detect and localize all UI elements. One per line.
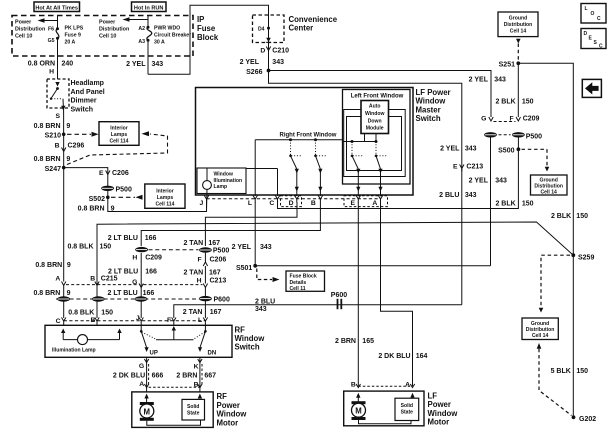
svg-text:H: H [132, 255, 137, 262]
svg-text:2 LT BLU: 2 LT BLU [108, 235, 138, 242]
bus S501 to G wire [255, 265, 490, 267]
power distribution text right [99, 20, 129, 40]
svg-text:And Panel: And Panel [71, 89, 105, 96]
svg-text:2 YEL: 2 YEL [440, 146, 460, 153]
RF switch UP contact [140, 325, 158, 356]
diode D4 [258, 26, 271, 42]
svg-text:Distribution: Distribution [504, 22, 533, 28]
svg-text:S251: S251 [499, 62, 515, 69]
dashed connector rects on pin row [281, 196, 302, 207]
svg-text:Cell 10: Cell 10 [99, 34, 116, 40]
svg-text:F: F [167, 317, 171, 324]
svg-text:PK LPS: PK LPS [65, 25, 84, 31]
svg-text:2 DK BLU: 2 DK BLU [378, 353, 410, 360]
svg-text:S: S [56, 113, 61, 120]
svg-text:D4: D4 [258, 26, 265, 32]
svg-text:Power: Power [15, 20, 32, 26]
svg-text:0.8 BRN: 0.8 BRN [33, 290, 60, 297]
svg-text:Switch: Switch [71, 106, 94, 113]
svg-text:166: 166 [143, 290, 155, 297]
svg-text:C210: C210 [272, 47, 289, 54]
svg-text:Cell 10: Cell 10 [15, 34, 32, 40]
svg-text:Window: Window [217, 410, 248, 419]
svg-text:167: 167 [210, 309, 222, 316]
svg-text:S501: S501 [236, 265, 252, 272]
wire S266 branch to C213 column [269, 71, 462, 305]
ground distribution cell 14 box top [498, 12, 538, 37]
connector C213 pin H [197, 277, 227, 287]
svg-text:150: 150 [522, 98, 534, 105]
Hot In RUN label [132, 2, 167, 12]
svg-text:C213: C213 [210, 277, 227, 284]
svg-text:167: 167 [209, 269, 221, 276]
svg-text:C296: C296 [68, 143, 85, 150]
node S266 [246, 69, 270, 76]
svg-text:D: D [584, 31, 588, 37]
svg-text:150: 150 [576, 368, 588, 375]
pin chevrons J L C D B E A [204, 196, 382, 203]
svg-text:L: L [585, 6, 588, 12]
svg-text:F: F [509, 116, 513, 123]
dashed ref S500 to ground dist box [522, 149, 550, 171]
svg-text:Center: Center [289, 24, 314, 33]
svg-text:9: 9 [66, 123, 70, 130]
svg-text:IP: IP [197, 15, 204, 24]
fuse F6/G5 PK LPS Fuse 9 [56, 27, 59, 39]
interior lamps cell 114 box 2 [145, 184, 185, 208]
column 0.8 BLK 150 (bus to RF pin B) [97, 222, 573, 255]
svg-text:B: B [90, 317, 95, 324]
svg-text:UP: UP [150, 350, 158, 356]
svg-text:Switch: Switch [235, 343, 260, 352]
svg-text:G: G [132, 279, 137, 286]
master pin row dashed [207, 198, 381, 200]
svg-text:C213: C213 [466, 164, 483, 171]
svg-text:343: 343 [465, 192, 477, 199]
svg-text:DN: DN [208, 350, 217, 356]
legend box DESC [581, 29, 606, 50]
headlamp dimmer switch dashed box [47, 79, 69, 108]
RF pin chevrons C B J F L [62, 318, 208, 326]
svg-text:0.8 BRN: 0.8 BRN [34, 123, 61, 130]
svg-text:Switch: Switch [416, 114, 441, 123]
svg-text:M: M [355, 407, 362, 416]
svg-text:Window: Window [416, 97, 447, 106]
dashed ref S501 to fuse block details [257, 269, 280, 283]
svg-text:S502: S502 [89, 196, 105, 203]
LF solid state box [395, 393, 419, 421]
svg-text:9: 9 [66, 156, 70, 163]
RFW switch contact 1 [289, 140, 302, 174]
svg-text:2 BRN: 2 BRN [176, 373, 197, 380]
svg-text:Ground: Ground [509, 16, 527, 22]
svg-text:Fuse Block: Fuse Block [290, 274, 317, 280]
svg-text:0.8 BLK: 0.8 BLK [68, 310, 94, 317]
svg-text:150: 150 [100, 244, 112, 251]
svg-text:C209: C209 [145, 255, 162, 262]
svg-text:Window: Window [365, 111, 385, 117]
connector C206 pin F [198, 256, 227, 266]
svg-text:2 BLU: 2 BLU [255, 298, 275, 305]
svg-text:A2: A2 [138, 26, 145, 32]
svg-text:B: B [351, 382, 356, 389]
left front window inner box [343, 90, 411, 185]
svg-text:G5: G5 [48, 38, 55, 44]
svg-text:P500: P500 [213, 248, 229, 255]
svg-text:Window: Window [235, 334, 266, 343]
svg-text:343: 343 [494, 77, 506, 84]
fuse block details cell 11 box [286, 271, 325, 292]
svg-text:C215: C215 [101, 275, 118, 282]
svg-text:C206: C206 [112, 170, 129, 177]
svg-text:Power: Power [217, 401, 240, 410]
svg-text:J: J [200, 200, 204, 207]
convenience center dashed box [253, 15, 285, 43]
RF power window motor box [132, 392, 213, 428]
svg-text:P600: P600 [331, 292, 347, 299]
svg-text:F6: F6 [48, 27, 54, 33]
svg-text:0.8 ORN: 0.8 ORN [28, 61, 55, 68]
column 2 LT BLU 166 [141, 202, 320, 246]
wire 0.8 ORN 240 [57, 38, 59, 79]
svg-text:Motor: Motor [428, 418, 450, 427]
svg-text:20 A: 20 A [65, 39, 76, 45]
svg-text:O: O [591, 11, 595, 17]
svg-text:2 BLK: 2 BLK [495, 98, 515, 105]
wire pin L up to rail [254, 140, 256, 196]
wire LFW to pin A [380, 169, 382, 196]
circuit breaker A2/A3 PWR WDO [123, 16, 152, 42]
svg-text:RF: RF [217, 392, 228, 401]
wire pin A down to LF motor A [381, 202, 413, 386]
svg-text:Interior: Interior [156, 188, 174, 194]
svg-text:S500: S500 [498, 148, 514, 155]
svg-text:2 TAN: 2 TAN [183, 269, 203, 276]
wire RF pin K down [199, 357, 201, 392]
svg-text:C206: C206 [210, 256, 227, 263]
svg-text:Dimmer: Dimmer [71, 98, 97, 105]
svg-text:Solid: Solid [401, 403, 413, 409]
svg-text:Cell 14: Cell 14 [532, 333, 549, 339]
svg-text:G: G [481, 116, 486, 123]
exit arrowheads at master box bottom [295, 187, 299, 192]
svg-text:A: A [405, 382, 410, 389]
svg-text:Master: Master [416, 105, 441, 114]
svg-text:Details: Details [290, 280, 307, 286]
wire pin C vertical [277, 169, 279, 197]
wire S502 to master pin J [108, 197, 207, 211]
svg-text:150: 150 [101, 310, 113, 317]
wire S251 right branch to S259 [518, 63, 573, 255]
dashed ref S502 to interior lamps box2 [111, 195, 143, 200]
svg-text:Cell 114: Cell 114 [156, 201, 175, 207]
wire C215-A down to RF pin C [63, 286, 65, 319]
svg-text:B: B [311, 200, 316, 207]
node G202 [572, 415, 597, 423]
node S210 [45, 132, 66, 139]
connector C296 pin B [55, 143, 85, 152]
svg-text:2 YEL: 2 YEL [469, 77, 489, 84]
svg-text:2 LT BLU: 2 LT BLU [107, 290, 137, 297]
svg-text:30 A: 30 A [154, 39, 165, 45]
svg-text:343: 343 [255, 306, 267, 313]
svg-text:2 YEL: 2 YEL [469, 177, 489, 184]
svg-text:343: 343 [152, 61, 164, 68]
svg-text:A: A [55, 275, 60, 282]
svg-text:166: 166 [145, 268, 157, 275]
svg-text:D: D [260, 47, 265, 54]
RF window switch box [45, 325, 232, 357]
svg-text:Power: Power [99, 20, 116, 26]
svg-text:L: L [248, 200, 252, 207]
svg-text:F: F [198, 256, 202, 263]
Hot At All Times label [34, 2, 80, 12]
svg-text:H: H [49, 69, 54, 76]
interior lamps cell 114 box 1 [99, 122, 139, 146]
svg-text:P600: P600 [214, 297, 230, 304]
svg-text:L: L [198, 317, 202, 324]
LFW switch contact 1 [351, 142, 364, 174]
wire lamp to pin J [206, 189, 209, 211]
svg-text:RF: RF [235, 325, 246, 334]
svg-text:Cell 14: Cell 14 [540, 189, 557, 195]
svg-text:Fuse 9: Fuse 9 [65, 32, 82, 38]
svg-text:Headlamp: Headlamp [71, 80, 104, 87]
ground distribution cell 14 box bottom [522, 318, 558, 340]
svg-text:Distribution: Distribution [99, 27, 129, 33]
svg-text:P500: P500 [116, 186, 132, 193]
svg-text:Illumination: Illumination [214, 178, 243, 184]
svg-text:2 BLK: 2 BLK [551, 213, 571, 220]
svg-text:PWR WDO: PWR WDO [154, 25, 180, 31]
svg-text:165: 165 [362, 338, 374, 345]
LF motor M symbol [352, 393, 366, 420]
wire pin E down to LF motor B [357, 202, 359, 386]
svg-text:Interior: Interior [110, 126, 128, 132]
RF pin row dashed [64, 320, 206, 322]
wire S259 to G202 [572, 255, 574, 417]
RF motor M symbol [140, 394, 154, 421]
svg-text:M: M [144, 407, 151, 416]
svg-text:Hot In RUN: Hot In RUN [134, 5, 164, 11]
svg-text:E: E [453, 164, 458, 171]
svg-text:Left Front Window: Left Front Window [351, 94, 404, 100]
wire breaker output to S266 loop [147, 40, 149, 74]
wire S251 down to C209 F [517, 63, 519, 117]
svg-text:167: 167 [208, 240, 220, 247]
svg-text:Power: Power [428, 400, 451, 409]
connector C210 pin D [260, 47, 289, 55]
wire G below P500 down to S501 bus [490, 138, 492, 266]
svg-text:C: C [56, 318, 61, 325]
RFW switch contact 2 [314, 140, 327, 174]
svg-text:H: H [197, 277, 202, 284]
RFW rail [255, 139, 342, 141]
wire dimmer to S210 [63, 108, 65, 168]
RF solid state box [182, 394, 205, 421]
bus pin C to S500 ground [278, 149, 519, 208]
svg-text:E: E [99, 170, 104, 177]
svg-text:666: 666 [152, 373, 164, 380]
wire RFW to pin B [319, 169, 321, 196]
connector P600 dashed row with ovals [56, 296, 230, 304]
LF power window master switch box [196, 88, 414, 196]
svg-text:Lamp: Lamp [214, 184, 228, 190]
connector P500 oval (F/C206 column) [199, 247, 229, 254]
RF illumination lamp [52, 329, 122, 354]
legend arrow box [582, 79, 601, 97]
svg-text:Convenience: Convenience [289, 15, 338, 24]
svg-text:Down: Down [368, 118, 382, 124]
svg-text:Window: Window [428, 409, 459, 418]
svg-text:Distribution: Distribution [15, 27, 45, 33]
ground distribution cell 14 box mid [531, 175, 568, 195]
node S500 [498, 147, 520, 154]
wire P500 to S502 [107, 191, 109, 198]
svg-text:B: B [55, 143, 60, 150]
AWDM leads [364, 134, 366, 142]
svg-text:2 YEL: 2 YEL [232, 244, 252, 251]
svg-text:Circuit Breaker: Circuit Breaker [154, 32, 191, 38]
LF motor internal wire [359, 420, 412, 424]
dashed ref S210 to interior lamps [67, 132, 99, 137]
svg-text:Fuse: Fuse [197, 24, 216, 33]
svg-text:9: 9 [67, 290, 71, 297]
svg-text:E: E [351, 200, 356, 207]
svg-text:State: State [187, 411, 200, 417]
svg-text:G: G [139, 363, 144, 370]
connector C206 pin E [99, 170, 129, 177]
svg-text:C: C [597, 16, 601, 22]
svg-text:S266: S266 [246, 69, 262, 76]
wire LFW to pin E [357, 169, 359, 196]
nested loop wires [347, 117, 402, 171]
wire S266 to G C209 [269, 71, 492, 118]
svg-text:S259: S259 [578, 254, 594, 261]
svg-text:343: 343 [260, 244, 272, 251]
svg-text:D: D [289, 200, 294, 207]
column 2 TAN 167 (C206/C213 chain) [205, 202, 297, 246]
connector C213 pin E [453, 164, 483, 172]
svg-text:Hot At All Times: Hot At All Times [35, 5, 78, 11]
LF power window motor box [344, 391, 424, 426]
svg-text:2 YEL: 2 YEL [240, 59, 260, 66]
dashed C209 row to P500 oval [149, 249, 199, 251]
wire fuse feed with arrow [38, 16, 58, 29]
svg-text:Window: Window [214, 172, 234, 178]
LFW rail [343, 141, 377, 143]
connector C213 pin G [132, 279, 202, 288]
svg-text:A: A [139, 381, 144, 388]
IP Fuse Block text [197, 15, 219, 42]
svg-text:343: 343 [272, 59, 284, 66]
svg-text:150: 150 [576, 213, 588, 220]
svg-text:2 LT BLU: 2 LT BLU [108, 268, 138, 275]
svg-text:Right Front Window: Right Front Window [280, 133, 337, 139]
wire RFW to pin D [296, 169, 298, 196]
power distribution text left [15, 20, 45, 40]
svg-text:Auto: Auto [369, 104, 381, 110]
wire S247 down left column [63, 168, 65, 282]
svg-text:P500: P500 [526, 133, 542, 140]
RF motor connector pins G/K A/B [139, 359, 202, 388]
svg-text:150: 150 [522, 201, 534, 208]
svg-text:Illumination Lamp: Illumination Lamp [52, 348, 96, 354]
svg-text:S247: S247 [45, 166, 61, 173]
wire pin L down to S501 [254, 202, 256, 266]
wire RF pin G down [146, 357, 148, 392]
svg-text:B: B [194, 381, 199, 388]
connector P600 double bar on bus [338, 299, 342, 309]
RF switch feed rail pin F [156, 326, 194, 340]
svg-text:0.8 BLK: 0.8 BLK [67, 244, 93, 251]
dashed ref to S251 [516, 39, 521, 61]
svg-text:2 BLU: 2 BLU [439, 192, 459, 199]
dashed ref box bottom to G202 [537, 343, 572, 416]
svg-text:343: 343 [465, 146, 477, 153]
RF switch DN contact [194, 325, 216, 356]
svg-text:K: K [194, 364, 199, 371]
connector P500 oval on C206 wire [101, 186, 132, 194]
svg-text:Motor: Motor [217, 418, 239, 427]
wire S247 branch to C206 [64, 168, 108, 186]
svg-text:667: 667 [204, 373, 216, 380]
svg-text:Block: Block [197, 33, 219, 42]
auto window down module box [361, 101, 389, 134]
legend box LOC [581, 4, 606, 24]
connector C215 pins A/B [55, 275, 138, 285]
svg-text:0.8 BRN: 0.8 BRN [35, 262, 62, 269]
node S251 [499, 61, 521, 68]
RF motor internal wire [147, 420, 201, 425]
svg-text:C209: C209 [523, 116, 540, 123]
dashed ref S247 to interior lamps box1 [67, 134, 168, 165]
svg-text:166: 166 [145, 235, 157, 242]
node S501 [236, 264, 257, 272]
svg-text:Cell 114: Cell 114 [110, 139, 129, 145]
IP fuse block dashed box [12, 16, 193, 57]
node S247 [45, 166, 66, 173]
svg-text:5 BLK: 5 BLK [551, 368, 571, 375]
connector C209 oval H [132, 247, 162, 262]
svg-text:2 TAN: 2 TAN [183, 309, 203, 316]
connector C209 pins G/F [481, 116, 539, 123]
LFW switch contact 2 [375, 142, 388, 174]
svg-text:A3: A3 [138, 39, 145, 45]
pin letters [200, 200, 378, 207]
wire F below P500 to S500 and bus208 [517, 138, 519, 150]
svg-text:Cell 14: Cell 14 [510, 29, 527, 35]
svg-text:A: A [372, 200, 377, 207]
svg-text:Module: Module [366, 126, 384, 132]
svg-text:0.8 BRN: 0.8 BRN [34, 156, 61, 163]
svg-text:240: 240 [62, 61, 74, 68]
svg-text:9: 9 [67, 262, 71, 269]
svg-text:LF: LF [428, 391, 438, 400]
svg-text:2 BRN: 2 BRN [335, 338, 356, 345]
svg-text:Lamps: Lamps [157, 195, 174, 201]
svg-text:G202: G202 [579, 416, 596, 423]
svg-text:Cell 11: Cell 11 [290, 286, 306, 292]
node S259 [571, 253, 594, 261]
connector P500 ovals right [484, 132, 542, 140]
node S502 [89, 196, 110, 203]
svg-text:2 YEL: 2 YEL [126, 61, 146, 68]
svg-text:State: State [401, 410, 414, 416]
svg-text:2 DK BLU: 2 DK BLU [113, 373, 145, 380]
dashed ref S259 to ground dist box bottom [541, 255, 570, 307]
LF motor connector pins B/A [351, 382, 415, 389]
